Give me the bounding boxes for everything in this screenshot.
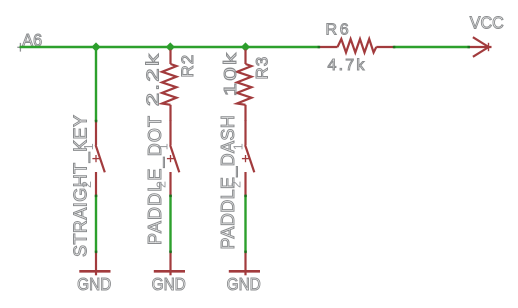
- pin number 2 of S3: [230, 181, 244, 188]
- label R3 value 10k: [221, 51, 240, 97]
- svg-text:R6: R6: [326, 22, 352, 39]
- label R2 name: [178, 54, 197, 78]
- resistor R3: [237, 50, 252, 122]
- wire branch1 lower (switch to GND): [95, 195, 97, 252]
- wire R6 to VCC: [394, 46, 469, 48]
- pin number 1 of S1: [82, 143, 96, 150]
- ground GND1: [79, 252, 110, 276]
- svg-text:PADDLE_DOT: PADDLE_DOT: [145, 115, 166, 245]
- svg-text:2: 2: [80, 181, 94, 188]
- pin number 1 of S3: [232, 143, 246, 150]
- svg-text:R3: R3: [253, 56, 272, 80]
- label VCC: [470, 13, 504, 33]
- node A6 label: [22, 31, 42, 51]
- wire bus A6 (left horizontal net): [20, 46, 319, 48]
- pin number 2 of S2: [155, 181, 169, 188]
- junction J2: [166, 42, 175, 51]
- ground GND2: [154, 252, 185, 276]
- resistor R6: [319, 39, 394, 53]
- label PADDLE_DASH: [218, 115, 239, 250]
- resistor R2: [162, 50, 177, 122]
- switch S1 STRAIGHT_KEY: [92, 120, 104, 196]
- label R3 name: [253, 56, 272, 80]
- wire branch1 upper (bus to switch): [95, 47, 97, 121]
- label R6 name: [326, 22, 352, 39]
- switch S3 PADDLE_DASH: [242, 120, 254, 196]
- pin number 1 of S2: [157, 143, 171, 150]
- switch S2 PADDLE_DOT: [167, 120, 179, 196]
- svg-text:VCC: VCC: [470, 13, 504, 33]
- ground GND3: [229, 252, 260, 276]
- supply VCC symbol: [469, 37, 492, 57]
- junction J3: [241, 42, 250, 51]
- svg-text:1: 1: [157, 143, 171, 150]
- wire branch3 lower (switch to GND): [244, 195, 246, 252]
- svg-text:R2: R2: [178, 54, 197, 78]
- wire branch2 lower (switch to GND): [169, 195, 171, 252]
- label GND2: [152, 275, 186, 294]
- svg-text:GND: GND: [227, 275, 261, 294]
- svg-text:1: 1: [82, 143, 96, 150]
- pin number 2 of S1: [80, 181, 94, 188]
- svg-text:2: 2: [155, 181, 169, 188]
- svg-text:1: 1: [232, 143, 246, 150]
- svg-text:2: 2: [230, 181, 244, 188]
- wire end overlap dots: [95, 46, 470, 253]
- label GND1: [77, 275, 111, 294]
- junction J1: [91, 42, 100, 51]
- label R2 value 2.2k: [143, 52, 162, 107]
- label STRAIGHT_KEY: [70, 115, 91, 257]
- label GND3: [227, 275, 261, 294]
- label PADDLE_DOT: [145, 115, 166, 245]
- pin cross at net A6 left end: [17, 43, 23, 52]
- svg-text:2.2k: 2.2k: [143, 52, 162, 107]
- svg-text:4.7k: 4.7k: [328, 57, 367, 74]
- svg-text:10k: 10k: [221, 51, 240, 97]
- label R6 value 4.7k: [328, 57, 367, 74]
- svg-text:GND: GND: [152, 275, 186, 294]
- svg-text:GND: GND: [77, 275, 111, 294]
